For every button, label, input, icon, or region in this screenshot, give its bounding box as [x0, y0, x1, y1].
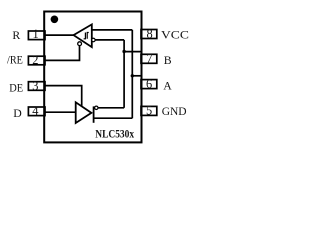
- receiver inverting input wire (to net B): [95, 39, 124, 41]
- svg-text:DE: DE: [9, 81, 23, 95]
- receiver inverting input bubble: [92, 38, 96, 42]
- wire R: pin1 to receiver output: [45, 34, 75, 36]
- wire to pin 7 B: [124, 51, 141, 53]
- hysteresis symbol: [84, 33, 89, 39]
- pin 8 box: [141, 30, 157, 39]
- pin 1 box: [28, 31, 45, 40]
- svg-text:A: A: [163, 79, 172, 93]
- svg-text:7: 7: [146, 52, 152, 66]
- svg-text:2: 2: [32, 53, 38, 67]
- driver inverting output wire to net B: [98, 107, 124, 109]
- driver output bar: [93, 106, 95, 122]
- pin 6 box: [141, 80, 157, 89]
- svg-text:R: R: [12, 28, 20, 42]
- driver noninverting output wire to net A: [94, 117, 133, 119]
- pin 3 box: [28, 82, 45, 91]
- svg-text:5: 5: [146, 103, 152, 117]
- svg-text:NLC530x: NLC530x: [95, 129, 134, 141]
- driver U1B (triangle): [76, 102, 92, 123]
- svg-text:8: 8: [146, 27, 152, 41]
- IC body U1: [44, 12, 141, 143]
- svg-text:4: 4: [32, 104, 38, 118]
- wire D: pin4 to driver input: [45, 111, 76, 113]
- junction dot net B / pin7: [122, 50, 125, 53]
- pin-1 marker dot: [51, 15, 59, 23]
- wire /RE: pin2 right then up to enable bubble: [45, 46, 80, 61]
- svg-text:/RE: /RE: [7, 53, 23, 67]
- svg-text:D: D: [13, 106, 22, 120]
- wire to pin 6 A: [132, 75, 141, 77]
- net A vertical wire: [131, 30, 133, 118]
- svg-text:GND: GND: [162, 104, 187, 118]
- wire DE: pin3 right then down to driver enable: [45, 86, 82, 107]
- svg-text:B: B: [164, 53, 172, 67]
- receiver U1A (triangle): [74, 24, 92, 47]
- pin 7 box: [141, 54, 157, 63]
- svg-text:3: 3: [32, 79, 38, 93]
- driver inverting output bubble: [95, 106, 98, 109]
- receiver enable bubble: [78, 42, 82, 46]
- receiver noninverting input wire (to net A): [92, 29, 133, 31]
- junction dot net A / pin6: [131, 74, 134, 77]
- svg-text:1: 1: [32, 27, 38, 41]
- net B vertical wire: [123, 40, 125, 108]
- svg-text:VCC: VCC: [161, 28, 189, 42]
- svg-text:6: 6: [146, 77, 152, 91]
- pin 4 box: [28, 107, 45, 116]
- pin 5 box: [141, 106, 157, 115]
- pin 2 box: [28, 56, 45, 65]
